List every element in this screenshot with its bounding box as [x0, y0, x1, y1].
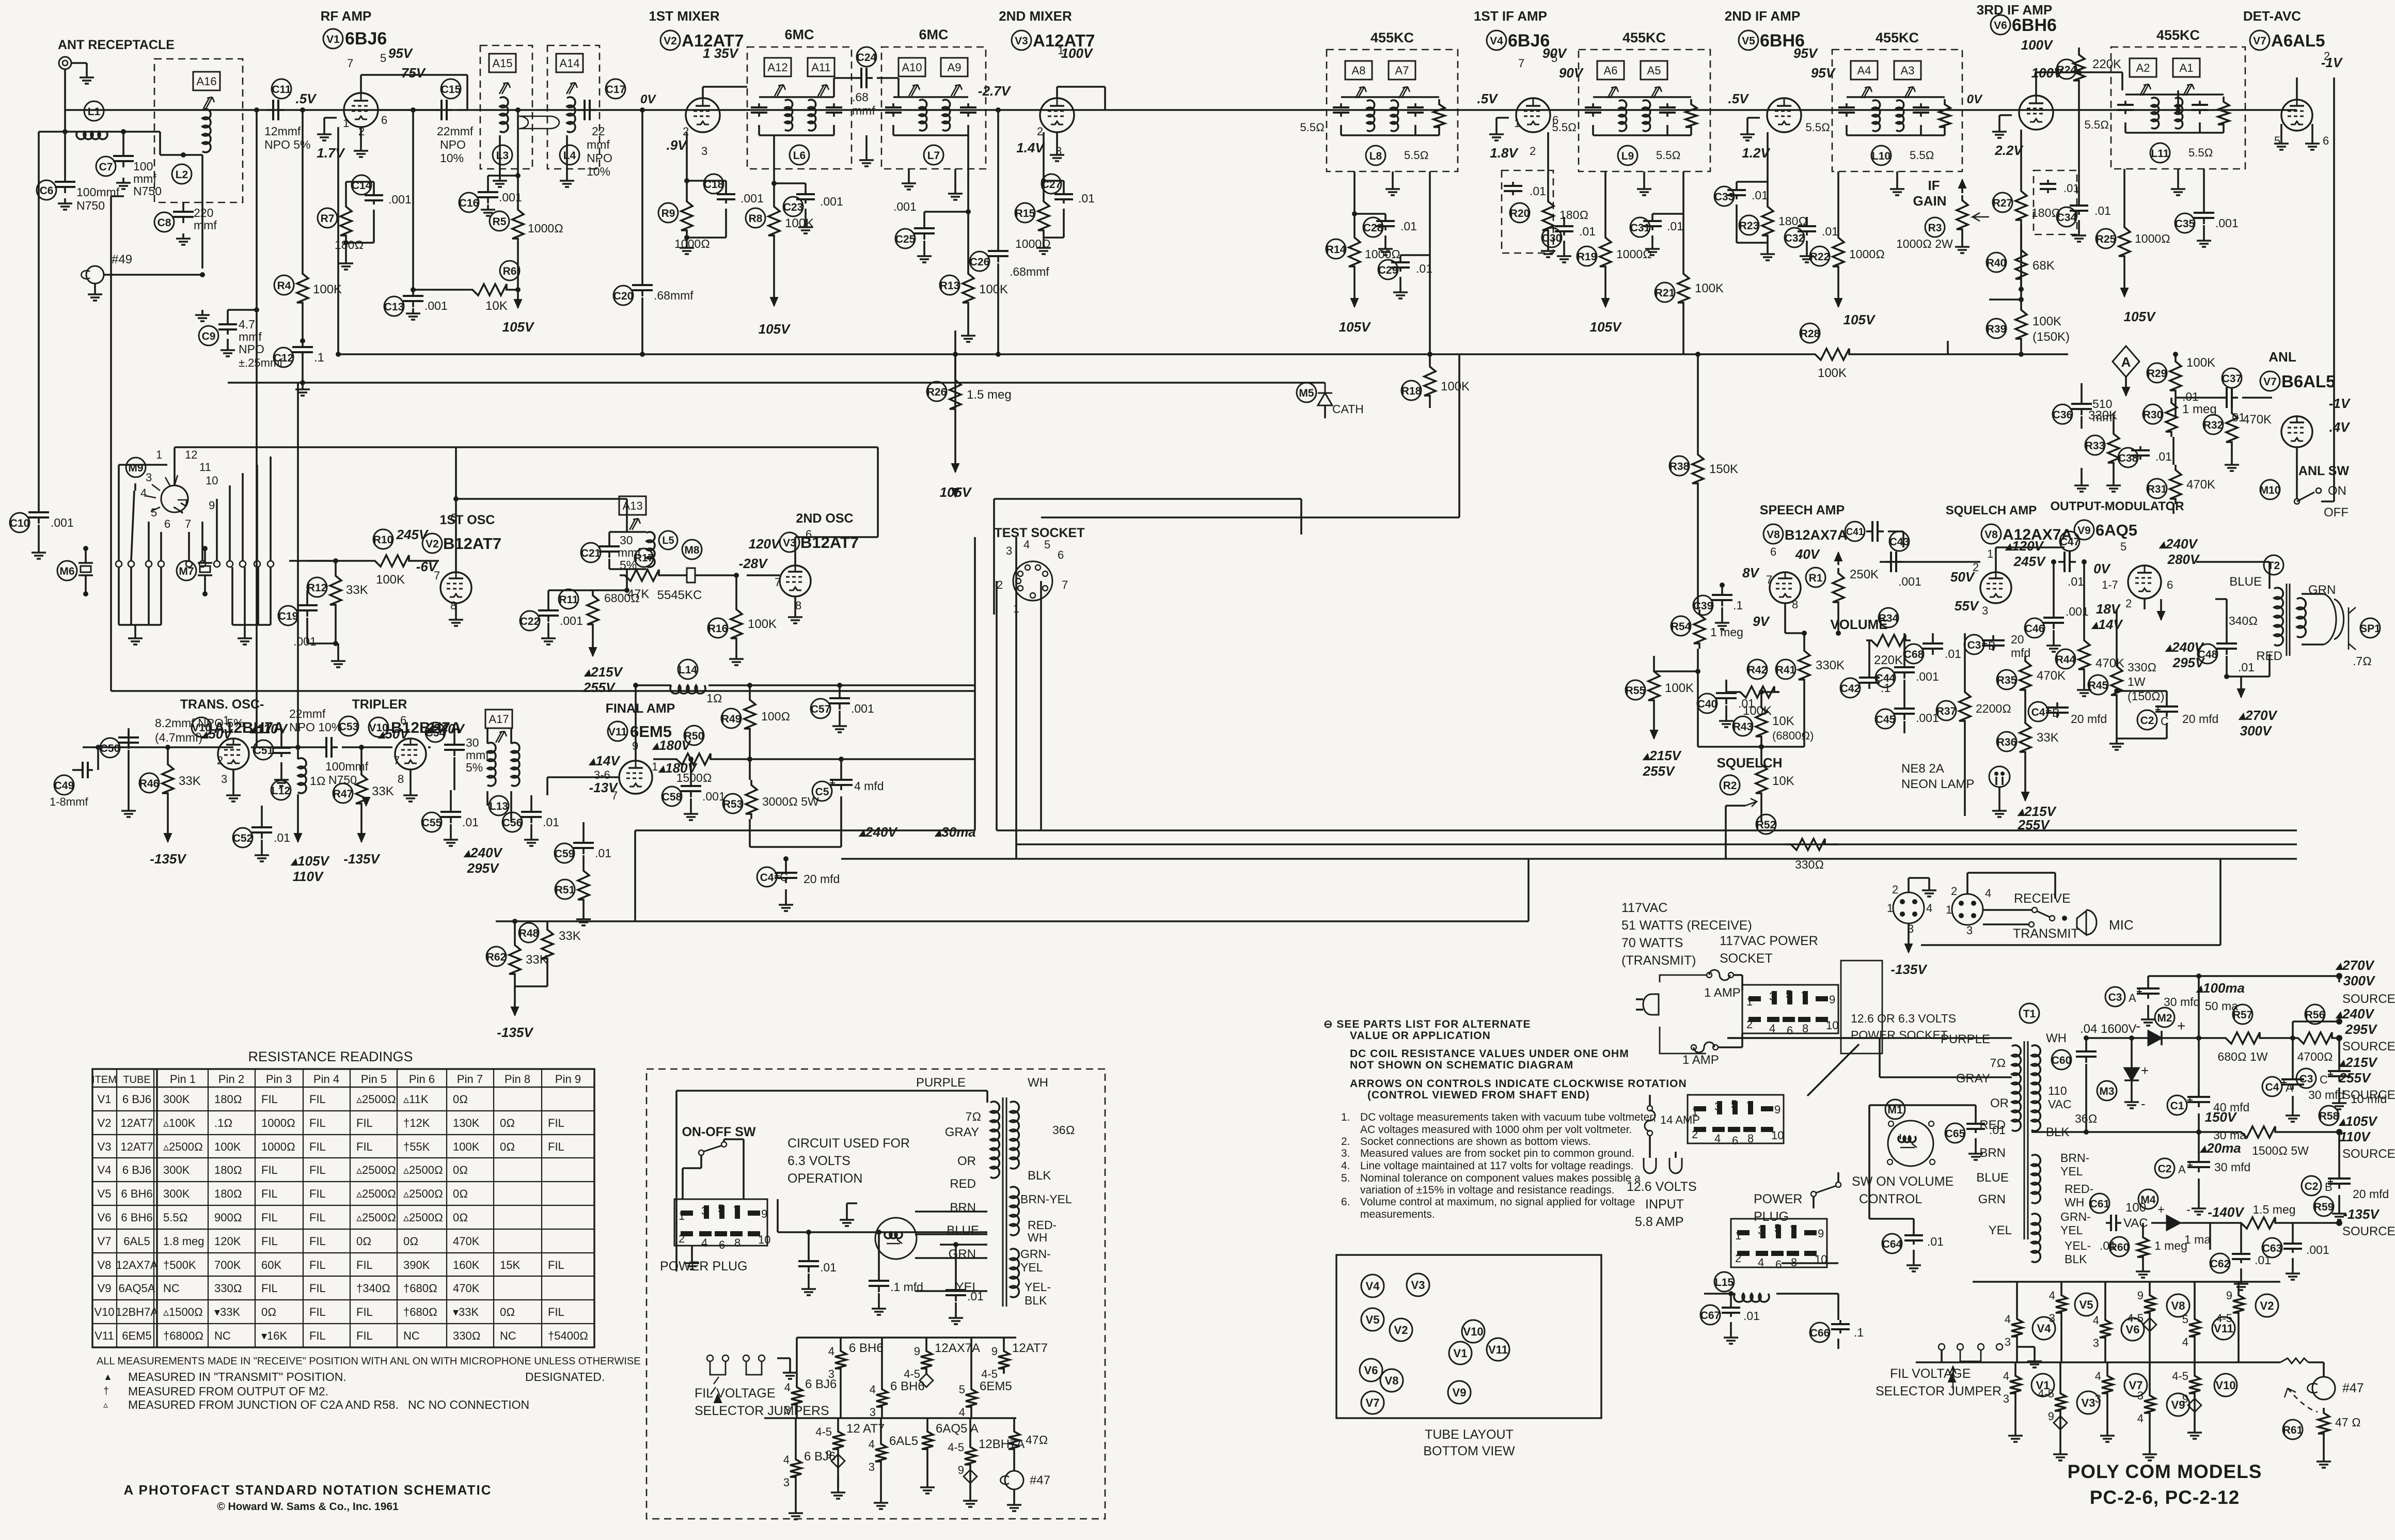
svg-text:C68: C68 — [1904, 649, 1924, 661]
svg-text:R29: R29 — [2147, 368, 2167, 380]
svg-text:C17: C17 — [606, 84, 626, 96]
dashed box 6MC L6 — [747, 47, 852, 169]
svg-text:R34: R34 — [1879, 612, 1899, 624]
svg-text:100K: 100K — [1695, 281, 1724, 295]
svg-text:10%: 10% — [587, 165, 610, 178]
svg-text:(6800Ω): (6800Ω) — [1772, 729, 1814, 742]
resistor R13 — [963, 269, 974, 308]
ground C30 — [1563, 251, 1565, 256]
svg-text:4: 4 — [869, 1438, 875, 1451]
svg-text:WH: WH — [1028, 1231, 1047, 1244]
svg-text:▴110V: ▴110V — [249, 721, 289, 736]
svg-text:12.6 OR 6.3 VOLTS: 12.6 OR 6.3 VOLTS — [1851, 1012, 1956, 1025]
svg-text:36Ω: 36Ω — [1052, 1123, 1075, 1137]
svg-text:C21: C21 — [581, 547, 601, 559]
svg-text:C28: C28 — [1363, 222, 1383, 234]
svg-text:50V: 50V — [1950, 569, 1976, 585]
ground C31 — [1651, 244, 1653, 249]
wire anl — [2296, 447, 2298, 499]
arrow R47 -135V — [360, 826, 363, 842]
resistor R44 470K — [2078, 635, 2090, 674]
svg-text:FIL: FIL — [309, 1093, 326, 1106]
svg-text:#47: #47 — [2342, 1381, 2364, 1395]
svg-text:▴240V: ▴240V — [858, 824, 898, 840]
svg-text:V3: V3 — [2082, 1396, 2095, 1409]
capacitor C64 — [1882, 1234, 1902, 1253]
svg-text:0Ω: 0Ω — [453, 1211, 468, 1224]
svg-text:NC: NC — [163, 1282, 180, 1295]
svg-text:R35: R35 — [1997, 674, 2017, 686]
transformer T63 — [990, 1102, 999, 1178]
wire mic bottom — [1908, 923, 1910, 940]
ground L11 — [2177, 169, 2179, 184]
lamp #47 right — [2312, 1377, 2335, 1400]
svg-text:0Ω: 0Ω — [500, 1306, 515, 1318]
svg-text:2: 2 — [683, 125, 689, 138]
svg-text:▴240V: ▴240V — [2158, 536, 2198, 552]
svg-text:FIL: FIL — [309, 1187, 326, 1200]
svg-text:130K: 130K — [453, 1117, 480, 1129]
wire M8 — [664, 574, 666, 576]
wire V3b — [747, 574, 780, 576]
wire ts verticals — [974, 537, 976, 830]
svg-text:BRN: BRN — [950, 1201, 976, 1215]
svg-text:.01: .01 — [1989, 1123, 2006, 1137]
resistor R17 47K — [620, 570, 664, 581]
svg-text:FIL: FIL — [356, 1259, 373, 1271]
ground C2A — [2198, 1203, 2200, 1208]
wire R9C18 — [686, 132, 688, 196]
svg-text:1ST MIXER: 1ST MIXER — [649, 8, 719, 24]
svg-text:FIL: FIL — [309, 1329, 326, 1342]
svg-text:.001: .001 — [820, 195, 843, 208]
svg-text:1000Ω: 1000Ω — [1849, 247, 1885, 261]
ground C13 — [412, 308, 414, 313]
svg-text:4-5: 4-5 — [904, 1368, 920, 1380]
svg-text:mfd: mfd — [2011, 646, 2030, 659]
svg-text:FIL: FIL — [309, 1306, 326, 1318]
wire onoff — [683, 1167, 701, 1169]
svg-text:68K: 68K — [2032, 259, 2055, 273]
svg-text:1: 1 — [1692, 1105, 1698, 1118]
svg-text:2: 2 — [2125, 597, 2132, 610]
ground C52 — [261, 850, 263, 855]
wire V2b top — [175, 446, 878, 448]
ground V5 grid — [1747, 117, 1760, 119]
ground neon — [1998, 806, 2000, 811]
wire squelch amp wires — [1880, 561, 1980, 563]
svg-text:FIL: FIL — [309, 1282, 326, 1295]
transformer T1 — [2020, 1003, 2039, 1023]
crystal M7 — [177, 561, 196, 580]
svg-text:11: 11 — [199, 461, 211, 474]
svg-text:NC: NC — [214, 1329, 231, 1342]
svg-text:100K: 100K — [1665, 681, 1694, 695]
resistor R52 330 — [1786, 839, 1830, 850]
svg-text:OPERATION: OPERATION — [787, 1171, 862, 1186]
svg-text:VAC: VAC — [2048, 1097, 2072, 1111]
svg-text:C11: C11 — [272, 84, 291, 96]
svg-text:5: 5 — [2274, 134, 2280, 147]
wire L15 C67 — [1714, 1272, 1734, 1292]
svg-text:SOURCE: SOURCE — [2342, 992, 2395, 1006]
svg-text:.01: .01 — [1743, 1309, 1760, 1323]
ground R60 — [2142, 1266, 2144, 1271]
svg-text:C8: C8 — [157, 217, 171, 229]
svg-text:RED-: RED- — [1028, 1218, 1057, 1232]
wire trans chain — [251, 746, 320, 748]
svg-text:6 BJ6: 6 BJ6 — [804, 1450, 836, 1464]
svg-text:⊖ SEE PARTS LIST FOR ALTE: ⊖ SEE PARTS LIST FOR ALTERNATE — [1323, 1018, 1531, 1030]
svg-text:▵2500Ω: ▵2500Ω — [403, 1211, 443, 1224]
resistor R10 100K — [370, 555, 414, 567]
svg-text:.1: .1 — [1854, 1326, 1864, 1339]
svg-text:9: 9 — [761, 1207, 767, 1220]
svg-text:70 WATTS: 70 WATTS — [1621, 936, 1683, 950]
svg-text:.001: .001 — [2215, 216, 2239, 230]
svg-text:55V: 55V — [1955, 598, 1980, 614]
svg-text:8: 8 — [795, 599, 801, 612]
svg-text:FIL: FIL — [548, 1117, 564, 1129]
svg-text:5.5Ω: 5.5Ω — [1806, 121, 1830, 134]
svg-text:.9V: .9V — [666, 137, 688, 153]
svg-text:M3: M3 — [2099, 1086, 2114, 1097]
resistor R11 — [587, 590, 598, 630]
svg-text:DESIGNATED.: DESIGNATED. — [525, 1370, 605, 1384]
svg-text:9: 9 — [914, 1345, 920, 1358]
tube layout V2 — [1390, 1318, 1412, 1341]
svg-text:▴14V: ▴14V — [2091, 617, 2123, 632]
svg-text:TRANS. OSC-: TRANS. OSC- — [180, 697, 264, 712]
svg-text:20 mfd: 20 mfd — [2182, 712, 2218, 726]
ground V3b — [794, 596, 796, 612]
inductor L7 ref — [924, 145, 943, 165]
svg-text:R3: R3 — [1928, 222, 1942, 234]
svg-text:DC voltage measurements taken: DC voltage measurements taken with vacuu… — [1360, 1111, 1656, 1123]
svg-text:330Ω: 330Ω — [214, 1282, 242, 1295]
svg-text:100: 100 — [133, 160, 153, 173]
wire junction bus — [256, 110, 258, 747]
svg-text:2: 2 — [1746, 1018, 1753, 1031]
svg-text:AC voltages measured with 100: AC voltages measured with 1000 ohm per v… — [1360, 1124, 1632, 1136]
wire R27 — [2020, 130, 2022, 186]
fil chain 63 row3d — [969, 1434, 971, 1442]
svg-text:.01: .01 — [2255, 1253, 2271, 1267]
svg-text:3: 3 — [870, 1406, 876, 1419]
svg-text:OUTPUT-MODULATOR: OUTPUT-MODULATOR — [2050, 499, 2184, 513]
svg-text:R42: R42 — [1747, 664, 1768, 676]
svg-text:A16: A16 — [196, 75, 216, 88]
svg-text:V3: V3 — [783, 537, 796, 549]
svg-text:390K: 390K — [403, 1259, 430, 1271]
svg-text:+: + — [2157, 1203, 2165, 1217]
svg-text:Nominal tolerance on component: Nominal tolerance on component values ma… — [1360, 1172, 1641, 1184]
resistor R24 220K — [2073, 50, 2085, 86]
svg-text:▵1500Ω: ▵1500Ω — [163, 1306, 203, 1318]
fuse F1 — [1709, 970, 1730, 980]
svg-text:4: 4 — [783, 1453, 790, 1466]
svg-text:220K: 220K — [1874, 653, 1903, 667]
svg-text:33K: 33K — [559, 929, 581, 943]
resistor R55 100K — [1648, 666, 1660, 705]
svg-text:.68: .68 — [852, 90, 869, 104]
svg-text:.001: .001 — [702, 790, 726, 803]
svg-text:FIL: FIL — [261, 1282, 278, 1295]
svg-text:FIL: FIL — [356, 1306, 373, 1318]
svg-text:5: 5 — [380, 52, 386, 65]
resistor R28 inline — [1810, 349, 1854, 360]
svg-text:6EM5: 6EM5 — [122, 1329, 151, 1342]
svg-text:6MC: 6MC — [784, 27, 814, 42]
wire C25 — [923, 212, 925, 222]
svg-text:20: 20 — [2011, 633, 2024, 646]
svg-text:▵2500Ω: ▵2500Ω — [356, 1093, 396, 1106]
svg-text:N750: N750 — [133, 184, 162, 198]
svg-text:1000Ω 2W: 1000Ω 2W — [1896, 237, 1953, 250]
svg-text:1.8V: 1.8V — [1490, 145, 1519, 161]
svg-text:A14: A14 — [559, 57, 579, 70]
svg-text:R25: R25 — [2096, 233, 2116, 245]
svg-text:150V: 150V — [2205, 1109, 2238, 1125]
capacitor C36 — [2081, 398, 2083, 404]
svg-text:1-8mmf: 1-8mmf — [50, 795, 88, 808]
svg-text:V9: V9 — [1453, 1386, 1467, 1399]
resistor R30 — [2166, 398, 2177, 437]
svg-text:V5: V5 — [1366, 1313, 1380, 1326]
wire feed to tripler — [297, 383, 299, 747]
svg-text:100K: 100K — [979, 282, 1008, 296]
arrow R19 105V — [1604, 289, 1606, 307]
svg-text:C34: C34 — [2057, 212, 2077, 224]
svg-text:-135V: -135V — [343, 851, 381, 867]
resistor R40 68K — [2015, 245, 2027, 284]
svg-text:C22: C22 — [520, 616, 540, 627]
svg-text:R53: R53 — [723, 798, 743, 810]
svg-text:FIL: FIL — [309, 1117, 326, 1129]
svg-text:7: 7 — [733, 1204, 739, 1217]
capacitor C56 — [530, 806, 532, 812]
fil chain 63 row1 — [840, 1338, 842, 1346]
svg-text:C2: C2 — [2305, 1181, 2319, 1192]
svg-text:700K: 700K — [214, 1259, 241, 1271]
svg-text:POWER PLUG: POWER PLUG — [660, 1259, 747, 1274]
svg-text:N750: N750 — [76, 199, 105, 212]
svg-text:1.5 meg: 1.5 meg — [967, 388, 1012, 402]
ground R20 — [1547, 246, 1549, 251]
svg-text:mmf: mmf — [466, 748, 489, 762]
wire R16 — [735, 575, 737, 604]
svg-text:0Ω: 0Ω — [453, 1187, 468, 1200]
wire C9 — [227, 310, 229, 319]
svg-text:-: - — [2141, 1096, 2146, 1111]
wire relay rows — [915, 1211, 987, 1213]
svg-text:9V: 9V — [1753, 614, 1770, 629]
svg-text:C4: C4 — [760, 872, 774, 884]
wire V3a plate — [1056, 87, 1058, 98]
svg-text:1500Ω: 1500Ω — [676, 771, 712, 784]
capacitor C2C 20mfd — [2166, 701, 2168, 706]
svg-text:5: 5 — [1044, 538, 1050, 551]
svg-text:6 BH6: 6 BH6 — [121, 1211, 152, 1224]
wire contact row2 — [186, 561, 192, 567]
svg-text:1ST OSC: 1ST OSC — [440, 513, 495, 527]
svg-text:▾33K: ▾33K — [214, 1306, 241, 1318]
svg-text:V4: V4 — [2037, 1322, 2052, 1335]
ground 63 sock — [691, 1246, 693, 1258]
ground R15 — [1043, 243, 1045, 248]
capacitor C22 — [547, 604, 549, 610]
wire R10 out — [414, 560, 439, 562]
wire c6 — [64, 132, 66, 176]
svg-text:Measured values are from socke: Measured values are from socket pin to c… — [1360, 1148, 1634, 1159]
svg-text:8: 8 — [734, 1236, 740, 1249]
svg-text:6: 6 — [400, 714, 406, 727]
svg-text:C46: C46 — [2025, 623, 2045, 635]
capacitor C53 — [320, 746, 326, 748]
svg-text:R43: R43 — [1733, 721, 1753, 733]
svg-text:GRN: GRN — [949, 1247, 976, 1261]
svg-text:0Ω: 0Ω — [261, 1306, 276, 1318]
wire R52 — [1830, 843, 1838, 845]
resistor R62 33K — [509, 940, 521, 979]
svg-text:C53: C53 — [339, 721, 359, 733]
svg-text:51 WATTS (RECEIVE): 51 WATTS (RECEIVE) — [1621, 918, 1752, 933]
svg-text:▵: ▵ — [103, 1400, 108, 1410]
svg-text:WH: WH — [2065, 1196, 2084, 1209]
svg-text:4: 4 — [701, 1236, 707, 1249]
svg-text:10: 10 — [758, 1233, 770, 1246]
svg-text:C2: C2 — [2158, 1163, 2172, 1175]
svg-text:1500Ω 5W: 1500Ω 5W — [2252, 1144, 2309, 1157]
capacitor C58 — [690, 780, 692, 786]
capacitor C28 — [1384, 217, 1386, 221]
svg-text:7: 7 — [1790, 1224, 1796, 1237]
resistor R25 — [2119, 222, 2130, 261]
svg-text:1.2V: 1.2V — [1742, 145, 1771, 161]
ground R9 — [686, 243, 688, 248]
svg-text:.001: .001 — [740, 192, 764, 205]
fil right V3 — [2059, 1380, 2061, 1388]
svg-text:6 BH6: 6 BH6 — [121, 1187, 152, 1200]
capacitor C4B 20mfd — [2056, 702, 2058, 708]
svg-text:255V: 255V — [1643, 763, 1676, 779]
svg-text:R46: R46 — [139, 778, 160, 790]
svg-text:C32: C32 — [1785, 232, 1805, 244]
svg-text:▴240V: ▴240V — [463, 845, 503, 860]
resistor R41 330K — [1799, 646, 1810, 685]
wire fil right bus — [1973, 1281, 2280, 1283]
ground V4 grid — [1496, 117, 1509, 119]
capacitor C65 — [1945, 1123, 1965, 1143]
svg-text:.68mmf: .68mmf — [1010, 265, 1049, 278]
connector ANT jack — [59, 57, 71, 69]
svg-text:-135V: -135V — [2343, 1206, 2380, 1222]
svg-text:6.3 VOLTS: 6.3 VOLTS — [787, 1154, 850, 1168]
svg-text:30: 30 — [466, 736, 479, 749]
resistor R60 1meg — [2109, 1237, 2129, 1256]
capacitor C23 — [805, 190, 807, 194]
svg-text:2200Ω: 2200Ω — [1976, 702, 2011, 715]
svg-text:1: 1 — [1987, 547, 1993, 560]
arrow -135V R62 — [514, 1000, 516, 1015]
inductor L5 — [647, 532, 655, 567]
svg-text:.01: .01 — [1530, 184, 1546, 198]
svg-text:R50: R50 — [684, 730, 704, 742]
svg-text:variation of ±15% in voltage a: variation of ±15% in voltage and resista… — [1360, 1184, 1615, 1196]
ground C35 — [2203, 235, 2205, 241]
wire C10 — [38, 132, 40, 506]
wire L6 — [759, 96, 834, 98]
capacitor C dash20 — [1502, 170, 1553, 253]
svg-text:†5400Ω: †5400Ω — [548, 1329, 588, 1342]
svg-text:V4: V4 — [1366, 1280, 1380, 1293]
svg-text:255V: 255V — [2339, 1070, 2372, 1086]
ground C8 — [182, 233, 184, 239]
wire osc out — [438, 560, 440, 562]
arrow osc 105V — [954, 496, 956, 498]
svg-text:mmf: mmf — [852, 104, 875, 117]
node A diamond — [2113, 346, 2139, 377]
svg-text:10%: 10% — [440, 151, 464, 165]
svg-text:NEON LAMP: NEON LAMP — [1901, 777, 1974, 791]
fil right V2 — [2238, 1282, 2240, 1290]
ground R13 — [967, 331, 969, 336]
fil right V6 — [2104, 1307, 2106, 1315]
capacitor C19 — [306, 599, 308, 605]
svg-text:Line voltage maintained at 117: Line voltage maintained at 117 volts for… — [1360, 1160, 1634, 1172]
svg-text:R17: R17 — [635, 553, 654, 564]
svg-text:-: - — [2186, 1203, 2191, 1217]
svg-text:▴30ma: ▴30ma — [934, 824, 976, 840]
svg-text:V8: V8 — [1984, 529, 1998, 541]
svg-text:1.7V: 1.7V — [317, 145, 345, 161]
svg-text:0Ω: 0Ω — [500, 1117, 515, 1129]
svg-text:470K: 470K — [453, 1235, 480, 1248]
svg-text:7: 7 — [185, 517, 191, 530]
svg-text:C66: C66 — [1810, 1327, 1830, 1339]
svg-text:A PHOTOFACT STANDARD NOTATI: A PHOTOFACT STANDARD NOTATION SCHEMATIC — [123, 1482, 492, 1498]
svg-text:IF: IF — [1928, 178, 1940, 193]
svg-text:4: 4 — [784, 1381, 791, 1394]
svg-text:B12AX7A: B12AX7A — [1785, 527, 1848, 543]
svg-text:6: 6 — [1775, 1258, 1782, 1271]
svg-text:PURPLE: PURPLE — [916, 1076, 966, 1090]
wire R8C23 — [773, 135, 775, 201]
svg-text:.01: .01 — [2238, 661, 2255, 674]
svg-text:4-5: 4-5 — [2172, 1370, 2188, 1382]
diode M3 — [2097, 1081, 2117, 1101]
svg-text:90V: 90V — [1559, 65, 1584, 81]
svg-text:▴270V: ▴270V — [2335, 957, 2375, 973]
svg-text:R48: R48 — [519, 928, 539, 939]
lamp #49 — [86, 266, 104, 284]
svg-text:6BH6: 6BH6 — [2012, 15, 2057, 35]
resistor R46 33K — [162, 759, 174, 798]
svg-text:4: 4 — [2095, 1370, 2101, 1382]
capacitor C44 — [1903, 661, 1905, 667]
svg-text:9: 9 — [1818, 1227, 1824, 1240]
svg-text:100K: 100K — [376, 573, 405, 587]
svg-text:-135V: -135V — [1890, 962, 1928, 977]
resistor R37 2200 — [1959, 687, 1971, 726]
resistor R42 100K — [1735, 686, 1779, 698]
svg-text:C61: C61 — [2090, 1198, 2110, 1210]
wire C32 — [1806, 217, 1808, 222]
svg-text:R49: R49 — [721, 713, 742, 725]
svg-text:100K: 100K — [748, 617, 777, 631]
svg-text:(150K): (150K) — [2032, 330, 2070, 344]
svg-text:SW ON VOLUME: SW ON VOLUME — [1852, 1174, 1953, 1189]
